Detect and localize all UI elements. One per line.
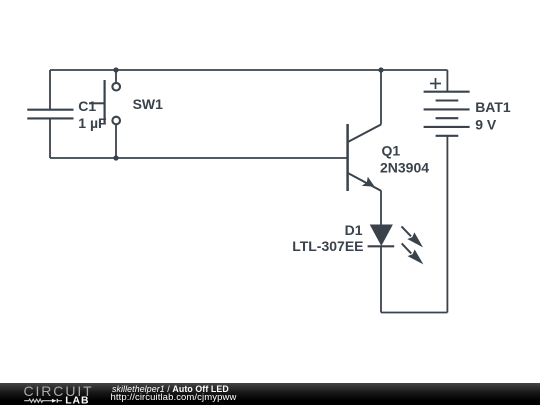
LED D1 light arrow 1 head	[407, 232, 423, 247]
wire SW1 bottom terminal	[115, 124, 117, 158]
capacitor C1 plates	[27, 110, 73, 119]
svg-text:LTL-307EE: LTL-307EE	[292, 238, 363, 254]
LED D1 light arrow 2 head	[408, 250, 424, 265]
logo diode	[52, 399, 57, 403]
footer url line	[111, 392, 237, 403]
wire BAT1 negative terminal up	[446, 136, 448, 313]
LED D1 light arrow 1 shaft	[402, 226, 412, 236]
CircuitLab logo symbol row: resistor zigzag, diode, LAB	[20, 394, 100, 405]
svg-text:D1: D1	[345, 222, 363, 238]
switch SW1 bottom contact circle	[112, 117, 120, 125]
wire top net: C1 top to BAT1 + terminal	[50, 69, 447, 71]
LED D1 light arrow 2 shaft	[402, 243, 412, 253]
svg-text:BAT1: BAT1	[475, 99, 511, 115]
CircuitLab logo wordmark CIRCUIT	[24, 383, 94, 399]
wire bottom right horizontal	[381, 312, 447, 314]
battery BAT1 plate short 3	[436, 135, 459, 137]
transistor Q1 base bar	[346, 124, 349, 191]
svg-text:LAB: LAB	[65, 395, 89, 405]
wire D1 cathode down	[380, 246, 382, 312]
switch SW1 top contact circle	[112, 83, 120, 91]
svg-text:C1: C1	[78, 98, 96, 114]
battery BAT1 plate short 1	[436, 99, 459, 101]
node junction at SW1 top / top net	[113, 67, 118, 72]
wire Q1 emitter to D1 anode	[380, 191, 382, 226]
wire Q1 collector to top net	[380, 70, 382, 125]
svg-text:2N3904: 2N3904	[380, 160, 429, 176]
svg-text:1 µF: 1 µF	[78, 115, 107, 131]
switch SW1 actuator bar	[103, 80, 105, 124]
node junction at Q1 collector / top net	[378, 67, 383, 72]
footer bar	[0, 383, 540, 405]
switch SW1 stem	[89, 102, 105, 104]
svg-text:SW1: SW1	[133, 96, 164, 112]
wire SW1 top terminal	[115, 70, 117, 82]
battery BAT1 plate short 2	[436, 117, 459, 119]
footer title line	[112, 384, 229, 394]
wire left branch: C1 bottom plate down to bottom corner	[49, 118, 51, 158]
wire BAT1 positive terminal	[446, 70, 448, 92]
battery BAT1 plus sign	[430, 78, 441, 89]
wire left branch: top corner down to C1 top plate	[49, 70, 51, 110]
transistor Q1 emitter arrowhead	[362, 177, 375, 187]
svg-text:Q1: Q1	[382, 143, 401, 159]
transistor Q1 collector diagonal	[348, 125, 381, 142]
node junction at SW1 bottom / bottom net	[113, 155, 118, 160]
LED D1 triangle	[370, 225, 393, 247]
battery BAT1 plate long 3	[424, 126, 470, 128]
svg-text:9 V: 9 V	[475, 116, 497, 132]
transistor Q1 emitter diagonal	[348, 173, 381, 191]
wire bottom net: C1 bottom to Q1 base	[50, 157, 348, 159]
battery BAT1 plate long 2	[424, 108, 470, 110]
LED D1 cathode bar	[368, 245, 395, 247]
battery BAT1 plate long 1	[424, 91, 470, 93]
logo resistor zigzag	[24, 399, 52, 402]
